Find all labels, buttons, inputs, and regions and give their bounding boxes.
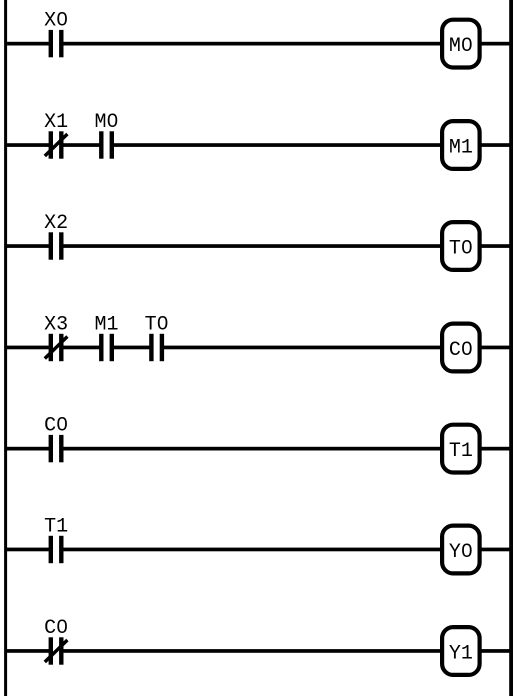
wire rung3 from coil T0 to right rail: [481, 244, 511, 248]
wire rung5 from C0 to coil T1: [63, 447, 442, 451]
svg-text:X0: X0: [44, 9, 68, 32]
wire rung7 from coil Y1 to right rail: [481, 649, 511, 653]
label T1: [44, 515, 68, 538]
label C0: [449, 339, 473, 362]
coil T1 (output box): [442, 425, 480, 473]
wire rung5 from coil T1 to right rail: [481, 447, 511, 451]
wire rung2 from left rail to contact X1: [5, 143, 50, 147]
wire rung4 segment after M1: [113, 346, 150, 350]
svg-text:Y0: Y0: [449, 541, 473, 564]
label T1: [449, 440, 473, 463]
label M1: [94, 313, 118, 336]
label T0: [449, 238, 473, 261]
coil M0 (output box): [442, 20, 480, 68]
contact T1 (normally open): [49, 536, 64, 563]
svg-text:M0: M0: [94, 111, 118, 134]
wire rung7 from left rail to contact C0: [5, 649, 50, 653]
contact M1 (normally open): [99, 334, 114, 361]
label Y1: [449, 643, 473, 666]
coil Y0 (output box): [442, 526, 480, 574]
contact X1 (normally closed): [45, 131, 68, 158]
contact X3 (normally closed): [45, 334, 68, 361]
svg-text:C0: C0: [449, 339, 473, 362]
coil C0 (output box): [442, 324, 480, 372]
svg-text:X2: X2: [44, 212, 68, 235]
wire rung1 from X0 to coil M0: [63, 42, 442, 46]
wire rung2 from coil M1 to right rail: [481, 143, 511, 147]
svg-text:C0: C0: [44, 617, 68, 640]
left power rail: [4, 0, 7, 696]
wire rung6 from left rail to contact T1: [5, 548, 50, 552]
wire rung2 from M0 to coil M1: [113, 143, 441, 147]
svg-text:X1: X1: [44, 111, 68, 134]
svg-text:X3: X3: [44, 313, 68, 336]
svg-text:T1: T1: [44, 515, 68, 538]
coil M1 (output box): [442, 121, 480, 169]
coil T0 (output box): [442, 222, 480, 270]
svg-text:M1: M1: [449, 137, 473, 160]
wire rung6 from T1 to coil Y0: [63, 548, 442, 552]
wire rung5 from left rail to contact C0: [5, 447, 50, 451]
wire rung4 from left rail to contact X3: [5, 346, 50, 350]
label C0: [44, 617, 68, 640]
wire rung1 from left rail to contact X0: [5, 42, 50, 46]
contact X2 (normally open): [49, 232, 64, 259]
svg-text:Y1: Y1: [449, 643, 473, 666]
label M0: [94, 111, 118, 134]
wire rung3 from X2 to coil T0: [63, 244, 442, 248]
svg-text:M1: M1: [94, 313, 118, 336]
svg-text:T0: T0: [449, 238, 473, 261]
wire rung4 segment after X3: [63, 346, 101, 350]
contact C0 (normally closed): [45, 637, 68, 664]
contact C0 (normally open): [49, 435, 64, 462]
svg-text:T0: T0: [145, 313, 169, 336]
contact X0 (normally open): [49, 30, 64, 57]
label Y0: [449, 541, 473, 564]
contact T0 (normally open): [149, 334, 164, 361]
label X0: [44, 9, 68, 32]
wire rung4 from coil C0 to right rail: [481, 346, 511, 350]
label M0: [449, 35, 473, 58]
label C0: [44, 414, 68, 437]
label X3: [44, 313, 68, 336]
svg-text:M0: M0: [449, 35, 473, 58]
label T0: [145, 313, 169, 336]
wire rung1 from coil M0 to right rail: [481, 42, 511, 46]
right power rail: [509, 0, 513, 696]
wire rung3 from left rail to contact X2: [5, 244, 50, 248]
label X1: [44, 111, 68, 134]
svg-text:T1: T1: [449, 440, 473, 463]
wire rung7 from C0 to coil Y1: [63, 649, 442, 653]
svg-text:C0: C0: [44, 414, 68, 437]
coil Y1 (output box): [442, 627, 480, 675]
label M1: [449, 137, 473, 160]
label X2: [44, 212, 68, 235]
wire rung6 from coil Y0 to right rail: [481, 548, 511, 552]
wire rung4 from T0 to coil C0: [163, 346, 441, 350]
contact M0 (normally open): [99, 131, 114, 158]
wire rung2 segment after X1: [63, 143, 101, 147]
